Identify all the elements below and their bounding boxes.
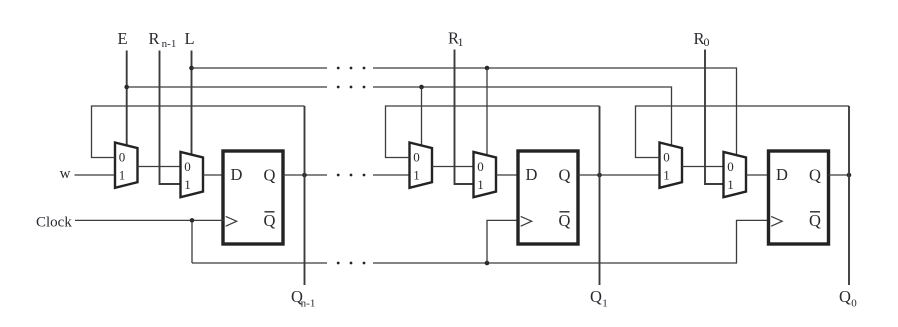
node Q_0 junction	[847, 173, 852, 178]
svg-text:D: D	[231, 165, 243, 184]
multiplexer U1 (stage-1 enable mux)	[115, 143, 138, 188]
svg-text:1: 1	[184, 177, 191, 192]
wire w input	[75, 174, 116, 176]
multiplexer U8 (stage-3 load mux)	[724, 152, 747, 197]
svg-text:Q: Q	[559, 211, 571, 230]
svg-text:Q: Q	[264, 166, 276, 185]
svg-text:E: E	[117, 29, 127, 48]
multiplexer U4 (stage-2 enable mux)	[410, 143, 433, 188]
wire clock drop to bottom row	[191, 220, 193, 263]
wire U9 Q output	[829, 174, 850, 176]
output label Q_n-1	[291, 287, 315, 310]
input label R_0	[693, 29, 709, 49]
svg-text:0: 0	[727, 159, 734, 174]
svg-text:0: 0	[477, 159, 484, 174]
input label w	[60, 166, 71, 182]
wire L row right segment to stage-3 select	[373, 68, 737, 156]
wire Q_0 vertical	[848, 106, 850, 285]
node Q_n-1 junction	[302, 173, 307, 178]
multiplexer U7 (stage-3 enable mux)	[660, 143, 683, 188]
svg-text:n-1: n-1	[162, 38, 177, 50]
svg-text:Q: Q	[559, 166, 571, 185]
input label Clock	[36, 215, 72, 231]
svg-text:0: 0	[184, 159, 191, 174]
input label L	[184, 29, 194, 48]
wire clock bottom row left segment	[192, 262, 327, 264]
node L tap stage 2	[485, 66, 490, 71]
node clock junction stage 1	[190, 218, 195, 223]
multiplexer U2 (stage-1 load mux)	[181, 152, 204, 197]
wire L vertical (stage 1 load-mux select)	[191, 51, 193, 156]
svg-text:R: R	[148, 29, 159, 48]
svg-text:L: L	[184, 29, 194, 48]
ellipsis on clock row	[337, 262, 366, 265]
node E junction	[124, 85, 129, 90]
wire Clock input	[75, 219, 225, 221]
wire U7 output to U8 input 0	[682, 166, 724, 168]
svg-text:w: w	[60, 166, 71, 182]
wire Q_1 vertical	[599, 106, 601, 285]
flip-flop U9 (stage-0 D flip-flop, bit 0)	[769, 151, 829, 244]
svg-text:1: 1	[119, 168, 126, 183]
svg-text:Q: Q	[839, 287, 851, 306]
wire R_n-1 vertical into stage-1 load mux input 1	[160, 51, 181, 185]
wire U6 Q output to stage-3 mux	[578, 174, 660, 176]
node Q_1 junction	[597, 173, 602, 178]
svg-text:Q: Q	[590, 287, 602, 306]
wire U5 output to U6 D input	[496, 174, 518, 176]
wire stage-1 feedback (Q_n-1 to U1 input 0)	[92, 106, 305, 158]
svg-text:0: 0	[119, 150, 126, 165]
svg-text:0: 0	[704, 35, 710, 49]
svg-text:Q: Q	[809, 166, 821, 185]
wire L row left segment	[192, 67, 328, 69]
input label R_n-1	[148, 29, 176, 50]
multiplexer U5 (stage-2 load mux)	[474, 152, 497, 197]
svg-text:Clock: Clock	[36, 215, 72, 231]
svg-text:1: 1	[602, 298, 608, 310]
wire U2 output to U3 D input	[203, 174, 223, 176]
svg-text:D: D	[776, 165, 788, 184]
svg-text:1: 1	[663, 168, 670, 183]
wire U1 output to U2 input 0	[138, 166, 181, 168]
svg-text:0: 0	[413, 150, 420, 165]
node clock junction stage 2	[485, 261, 490, 266]
wire U8 output to U9 D input	[746, 174, 769, 176]
svg-text:Q: Q	[809, 211, 821, 230]
ellipsis on E row	[337, 86, 366, 89]
input label R_1	[448, 29, 464, 49]
svg-text:0: 0	[663, 150, 670, 165]
svg-text:0: 0	[851, 298, 857, 310]
wire E row right segment to stage-3 select	[373, 87, 672, 146]
svg-text:1: 1	[727, 177, 734, 192]
wire E row left segment	[127, 86, 327, 88]
svg-text:D: D	[526, 165, 538, 184]
svg-text:Q: Q	[264, 211, 276, 230]
node E tap stage 2	[419, 85, 424, 90]
output label Q_0	[839, 287, 857, 310]
node L junction	[189, 66, 194, 71]
output label Q_1	[590, 287, 608, 310]
wire E vertical (stage 1 mux select)	[126, 51, 128, 147]
svg-text:1: 1	[477, 177, 484, 192]
wire stage-2 feedback (Q_1 to U4 input 0)	[386, 106, 600, 158]
wire stage-2 clock branch	[487, 220, 520, 263]
wire Q_n-1 vertical	[304, 106, 306, 285]
flip-flop U3 (stage n-1 D flip-flop)	[223, 151, 283, 244]
ellipsis on data chain	[337, 174, 366, 177]
wire U4 output to U5 input 0	[432, 166, 474, 168]
svg-text:n-1: n-1	[301, 298, 316, 310]
svg-text:1: 1	[413, 168, 420, 183]
input label E	[117, 29, 127, 48]
wire R_0 vertical into stage-3 load mux input 1	[705, 50, 724, 185]
wire U3 Q output	[283, 174, 327, 176]
wire E select drop stage 2	[421, 87, 423, 146]
wire stage-3 feedback (Q_0 to U7 input 0)	[636, 106, 850, 158]
wire clock bottom row right segment to stage-3 clock	[373, 220, 770, 263]
wire R_1 vertical into stage-2 load mux input 1	[455, 50, 474, 185]
flip-flop U6 (stage-1 D flip-flop, bit 1)	[518, 151, 578, 244]
wire data chain into stage 2	[373, 174, 410, 176]
svg-text:1: 1	[458, 35, 464, 49]
ellipsis on L row	[337, 67, 366, 70]
wire L select drop stage 2	[486, 68, 488, 156]
